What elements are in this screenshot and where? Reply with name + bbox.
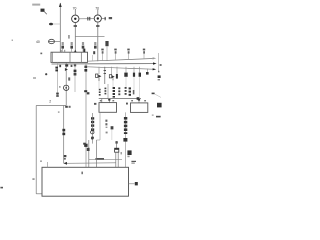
valve above tank right <box>115 141 119 167</box>
check valve row above box A <box>61 42 64 52</box>
label 60 near tank top right <box>131 161 136 162</box>
junction glyphs at left pipe <box>65 106 70 108</box>
valve V7 <box>146 69 149 75</box>
manifold line top <box>88 57 157 61</box>
node 20 label <box>49 23 60 26</box>
small marks right of that column <box>105 120 113 140</box>
arrow into box A <box>74 50 77 53</box>
stem with tees <box>104 67 106 84</box>
header vertical right <box>159 53 162 72</box>
ticks above manifold <box>101 49 145 61</box>
mark above box A right <box>83 49 85 52</box>
tiny dot left <box>12 40 13 41</box>
valve V5 <box>133 67 135 77</box>
box B1 <box>99 103 117 113</box>
fitting right of pump2 <box>101 17 112 20</box>
manifold line mid <box>52 62 157 64</box>
valves on left long line <box>84 66 89 95</box>
glyph column mid (above circles) <box>83 113 94 145</box>
valve V6 <box>139 67 141 77</box>
mid glyph columns <box>99 89 101 96</box>
wire supply line with arrow <box>59 3 62 53</box>
return line to tank left <box>63 155 115 165</box>
stems into box1 <box>100 99 114 103</box>
valve V4 <box>124 67 127 77</box>
left drain pipe <box>36 62 66 193</box>
ticks above box A <box>61 50 62 52</box>
fitting between pumps <box>79 17 94 21</box>
humidifier box A <box>51 52 88 62</box>
under-box valves left <box>55 62 58 96</box>
pump box above tank left pair <box>84 64 89 167</box>
labels right of box2 <box>152 103 162 118</box>
column below box2 <box>123 112 127 167</box>
label 10 <box>129 182 138 185</box>
svg-text:2: 2 <box>49 100 51 104</box>
manifold line bottom <box>88 67 157 71</box>
svg-text:40: 40 <box>36 40 40 44</box>
valve V1 <box>96 67 102 81</box>
stems valve row to columns <box>99 77 140 97</box>
label 30 right of box A <box>93 51 95 54</box>
pump P1 <box>72 6 79 52</box>
box B2 <box>131 103 148 113</box>
label 50 mark <box>152 93 161 98</box>
svg-text:70: 70 <box>95 6 99 10</box>
valve V3 small <box>116 67 118 79</box>
column below box1 <box>91 113 94 144</box>
label left of box1 <box>94 103 96 105</box>
valves on left drop line <box>58 106 65 164</box>
left small marks <box>33 53 47 79</box>
label left of box2 <box>126 103 128 105</box>
pump P2 <box>94 6 101 61</box>
wire bypass header <box>68 35 104 39</box>
gauge G1 <box>36 39 60 44</box>
valve at end of bypass header <box>105 41 108 61</box>
stems into box2 <box>131 99 146 103</box>
bottom left marks <box>0 160 42 188</box>
bus line 2 <box>99 97 141 100</box>
svg-text:70: 70 <box>73 6 77 10</box>
labels right header <box>158 71 161 81</box>
motor circle <box>59 85 69 90</box>
figure label FIG.1 <box>32 4 47 15</box>
valve V2 <box>109 67 114 81</box>
upper return line <box>89 158 122 160</box>
tank T10 <box>42 162 129 196</box>
drop line x75 under box <box>68 62 76 92</box>
short line under label 30 <box>91 55 93 61</box>
label block right of drop <box>121 150 132 157</box>
pipe from box1 down <box>96 112 100 167</box>
